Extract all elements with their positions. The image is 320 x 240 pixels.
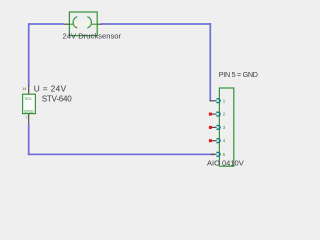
wire halo (compression glow)	[26, 21, 214, 157]
connector pin 1 stub	[209, 100, 216, 102]
wire top horizontal left segment (node 24V)	[28, 23, 64, 25]
svg-text:Vcc: Vcc	[25, 96, 33, 101]
connector pin 4 socket	[216, 139, 220, 143]
sensor internal lead right (green)	[91, 23, 97, 25]
sensor internal lead left (green)	[69, 23, 73, 25]
connector pin 5 socket	[216, 152, 220, 156]
power supply U1 STV-640 box	[23, 94, 36, 113]
svg-text:24V Drucksensor: 24V Drucksensor	[63, 32, 122, 41]
wire right vertical down to pin 1	[209, 23, 211, 101]
connector pin 3 unconnected marker (red)	[209, 126, 212, 129]
sensor B1 pin stub right	[97, 23, 101, 25]
svg-text:U = 24V: U = 24V	[34, 83, 67, 93]
sensor B1 pin stub left	[64, 23, 69, 25]
wire left vertical upper segment	[28, 23, 30, 86]
sensor B1 24V Drucksensor box	[69, 12, 97, 36]
sensor B1 left contact arc	[73, 17, 77, 28]
connector pin 3 socket	[216, 126, 220, 130]
sensor B1 right contact arc	[87, 17, 91, 28]
connector pin 2 socket	[216, 112, 220, 116]
connector pin 2 stub	[211, 113, 217, 115]
power supply U1 pin stub bottom (pin 7)	[28, 114, 30, 124]
wire left vertical lower segment	[28, 123, 30, 155]
wire bottom horizontal to pin 5	[28, 153, 214, 155]
power supply U1 STV-640 pin stub top (pin 14)	[28, 86, 30, 95]
connector pin 4 unconnected marker (red)	[209, 139, 212, 142]
connector X1 box AIO	[219, 88, 233, 166]
connector pin 2 unconnected marker (red)	[209, 113, 212, 116]
svg-text:STV-640: STV-640	[42, 95, 72, 104]
connector pin 1 socket	[216, 99, 220, 103]
wire top horizontal right segment	[101, 23, 211, 25]
svg-text:AIO 0410V: AIO 0410V	[207, 159, 244, 168]
connector pin 3 stub	[211, 126, 217, 128]
svg-text:GND: GND	[24, 109, 34, 114]
svg-text:14: 14	[22, 86, 27, 91]
connector pin 4 stub	[211, 140, 217, 142]
svg-text:PIN 5 = GND: PIN 5 = GND	[219, 70, 258, 79]
connector pin 5 stub	[211, 153, 217, 155]
